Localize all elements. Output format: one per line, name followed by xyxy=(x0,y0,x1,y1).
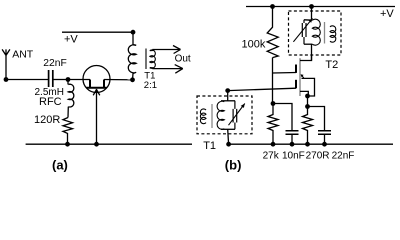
resistor R4 270R xyxy=(303,107,313,145)
junction dot T1b-gate1 xyxy=(225,88,230,93)
transformer T1 primary xyxy=(128,32,136,80)
resistor R3 27k xyxy=(268,104,278,145)
svg-text:(b): (b) xyxy=(225,158,242,173)
wire secondary bottom out xyxy=(150,67,183,70)
wire C3 to ground xyxy=(324,135,326,145)
arrow out bottom xyxy=(175,65,183,74)
resistor R2 100k xyxy=(267,7,278,58)
wire Q1 drain to T1 xyxy=(104,79,133,81)
capacitor C3 22nF xyxy=(318,131,331,135)
resistor R1 120R xyxy=(63,118,73,145)
svg-text:RFC: RFC xyxy=(39,96,62,108)
ground rail (a) xyxy=(26,143,192,145)
Q2 gate bar lower xyxy=(295,80,297,89)
junction dot C2-ground xyxy=(290,142,295,147)
wire T1b top lead xyxy=(227,91,229,101)
transistor Q1 JFET body xyxy=(83,66,110,93)
svg-text:100k: 100k xyxy=(242,39,266,51)
wire source down xyxy=(307,96,309,107)
+V rail (a) xyxy=(62,31,133,33)
wire gate2 xyxy=(273,72,297,75)
svg-text:+V: +V xyxy=(380,8,394,20)
T1b bottom wire xyxy=(221,128,235,130)
junction dot 270R-ground xyxy=(305,142,310,147)
T1b varicap arrow xyxy=(241,104,245,108)
wire bias to C2 xyxy=(273,104,292,131)
junction dot 27k-ground xyxy=(271,142,276,147)
node A junction dot xyxy=(66,77,71,82)
transistor Q1 gate arrow xyxy=(93,89,100,144)
junction dot drain-T1 xyxy=(130,77,135,82)
junction dot C3-ground xyxy=(322,142,327,147)
wire secondary top out xyxy=(150,50,181,51)
wire C2 to ground xyxy=(291,135,293,145)
T2 varicap arrow xyxy=(309,18,313,22)
+V rail (b) xyxy=(246,6,395,8)
Q2 drain lead xyxy=(300,55,312,61)
junction dot source node xyxy=(305,94,310,99)
T2 small coupling coil xyxy=(330,26,336,42)
junction dot +V rail xyxy=(131,30,136,35)
T1b top wire xyxy=(221,100,235,102)
Q2 source lead xyxy=(300,91,308,96)
svg-text:ANT: ANT xyxy=(12,48,34,60)
capacitor C2 10nF xyxy=(286,131,299,135)
wire C1 to node A xyxy=(54,79,69,81)
wire antenna to C1 xyxy=(6,79,48,81)
svg-text:Out: Out xyxy=(175,54,191,65)
junction dot source bypass node xyxy=(305,104,310,109)
svg-text:2:1: 2:1 xyxy=(144,80,157,91)
Q2 gate bar upper xyxy=(295,65,297,73)
capacitor C1 22nF xyxy=(49,70,53,87)
arrow out top xyxy=(173,46,181,54)
T1b core xyxy=(211,104,213,128)
wire T2 bottom lead xyxy=(311,44,313,60)
svg-text:T2: T2 xyxy=(325,59,338,71)
svg-text:22nF: 22nF xyxy=(332,151,355,162)
junction dot R1-ground xyxy=(65,142,70,147)
wire T2 top lead xyxy=(311,7,313,20)
wire node A to Q1 source xyxy=(68,79,90,81)
wire R2 to gate2 node xyxy=(272,58,274,73)
wire bias down xyxy=(272,73,274,104)
T2 top wire xyxy=(304,19,312,21)
svg-text:+V: +V xyxy=(64,34,78,46)
Q2 substrate arrow xyxy=(302,78,315,96)
wire source to C3 xyxy=(308,107,325,131)
T1b small coupling coil xyxy=(200,109,206,124)
T1b varicap xyxy=(233,101,237,130)
T2 bottom wire xyxy=(304,43,312,45)
ground rail (b) xyxy=(229,143,393,145)
svg-text:(a): (a) xyxy=(52,158,68,173)
T1b main coil xyxy=(217,101,224,129)
transformer T1 secondary xyxy=(146,49,155,70)
T2 varicap xyxy=(302,20,306,44)
tuned transformer T2 dashed box xyxy=(289,11,342,55)
transistor Q1 internals xyxy=(87,80,107,88)
tuned transformer T1 (b) dashed box xyxy=(197,96,252,134)
svg-text:22nF: 22nF xyxy=(43,58,66,69)
node ANT junction dot xyxy=(4,77,9,82)
junction dot T1b-ground xyxy=(226,142,231,147)
junction dot rail-T2 xyxy=(309,4,314,9)
svg-text:120R: 120R xyxy=(34,114,60,126)
transistor Q2 dual-gate MOSFET channel xyxy=(299,58,301,96)
inductor RFC 2.5mH xyxy=(68,80,74,118)
svg-text:T1: T1 xyxy=(203,140,216,152)
svg-text:27k: 27k xyxy=(263,151,280,162)
T2 core xyxy=(324,22,326,44)
wire T1b bottom to ground xyxy=(227,129,230,144)
svg-text:270R: 270R xyxy=(306,151,330,162)
T2 main coil xyxy=(312,19,320,45)
wire gate1 xyxy=(228,88,296,90)
junction dot rail-R2 xyxy=(270,4,275,9)
antenna xyxy=(2,49,10,79)
junction dot bias node xyxy=(271,101,276,106)
junction dot gate-ground xyxy=(94,142,99,147)
svg-text:10nF: 10nF xyxy=(282,151,305,162)
